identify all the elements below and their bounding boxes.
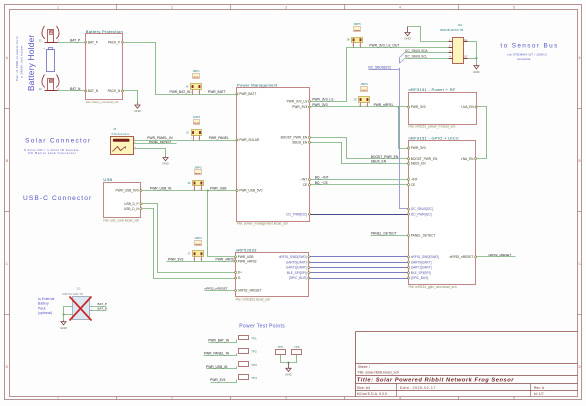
svg-text:BAT_N: BAT_N	[88, 89, 99, 93]
svg-text:PWR_3V3: PWR_3V3	[312, 103, 328, 107]
svg-text:3: 3	[285, 397, 287, 401]
svg-text:UART1[UART]: UART1[UART]	[411, 266, 432, 270]
svg-text:PWR_USB_IN: PWR_USB_IN	[206, 365, 228, 369]
svg-text:GND: GND	[134, 109, 140, 113]
svg-text:BQ_~CE: BQ_~CE	[315, 181, 329, 185]
svg-text:to External: to External	[38, 297, 54, 301]
svg-text:GND: GND	[162, 162, 168, 166]
svg-text:CE: CE	[411, 183, 415, 187]
svg-text:PANEL_DETECT: PANEL_DETECT	[411, 234, 436, 238]
svg-text:Power Test Points: Power Test Points	[239, 324, 285, 330]
svg-text:PWR_BATT: PWR_BATT	[239, 92, 256, 96]
svg-text:DC Barrel Jack Connector: DC Barrel Jack Connector	[28, 151, 76, 155]
svg-text:USB_D_P: USB_D_P	[124, 202, 139, 206]
svg-text:File: nrf52833.kicad_sch: File: nrf52833.kicad_sch	[236, 298, 271, 302]
svg-text:I2C_SBUS[I2C]: I2C_SBUS[I2C]	[411, 207, 433, 211]
svg-text:JMP3: JMP3	[194, 165, 202, 169]
svg-text:1: 1	[359, 45, 360, 47]
svg-text:1: 1	[57, 6, 59, 10]
svg-text:PWR_3V3: PWR_3V3	[210, 378, 226, 382]
svg-text:J1: J1	[39, 39, 42, 43]
svg-text:nRF52833: nRF52833	[236, 247, 258, 252]
svg-text:BAT_P: BAT_P	[70, 39, 81, 43]
svg-text:TP2: TP2	[251, 350, 257, 354]
svg-text:JMP2: JMP2	[193, 115, 201, 119]
svg-text:PWR_3V3_LS_OUT: PWR_3V3_LS_OUT	[369, 43, 399, 47]
svg-text:USB_D_N: USB_D_N	[124, 207, 139, 211]
svg-text:J7: J7	[187, 252, 190, 256]
svg-text:USB-C Connector: USB-C Connector	[23, 195, 92, 202]
svg-text:Rev: A: Rev: A	[534, 386, 545, 390]
svg-text:4: 4	[399, 6, 401, 10]
svg-text:File: nrf9151_power_rf.kicad_s: File: nrf9151_power_rf.kicad_sch	[409, 125, 456, 129]
svg-text:S2B-PH-SM4-TB: S2B-PH-SM4-TB	[62, 292, 83, 296]
svg-text:nRF52_nRESET: nRF52_nRESET	[205, 287, 228, 291]
svg-text:PWR_USB_IN: PWR_USB_IN	[150, 187, 172, 191]
svg-text:1: 1	[198, 92, 199, 94]
svg-text:TP3: TP3	[251, 363, 257, 367]
svg-text:File: nrf9151_gpio_uicc.kicad_: File: nrf9151_gpio_uicc.kicad_sch	[409, 285, 457, 289]
svg-text:nRF52_nRESET: nRF52_nRESET	[450, 255, 474, 259]
svg-text:J9: J9	[353, 97, 356, 101]
svg-text:~INT: ~INT	[411, 178, 418, 182]
svg-text:PWR_USB: PWR_USB	[210, 187, 227, 191]
svg-text:1: 1	[57, 397, 59, 401]
svg-text:BAT_P: BAT_P	[98, 302, 107, 306]
svg-text:File: usb_conn.kicad_sch: File: usb_conn.kicad_sch	[103, 219, 139, 223]
svg-text:File: battery_prot.kicad_sch: File: battery_prot.kicad_sch	[86, 100, 119, 104]
svg-text:BAT_N: BAT_N	[98, 307, 107, 311]
svg-text:UART0[UART]: UART0[UART]	[286, 260, 307, 264]
svg-text:PWR_USB: PWR_USB	[238, 255, 254, 259]
svg-text:File: power_management.kicad_s: File: power_management.kicad_sch	[237, 222, 288, 226]
svg-text:1: 1	[198, 138, 199, 140]
svg-text:PWR_USB_5V0: PWR_USB_5V0	[115, 189, 138, 193]
svg-text:PWR_BATT: PWR_BATT	[208, 90, 226, 94]
svg-text:BOOST_PWR_EN: BOOST_PWR_EN	[371, 155, 399, 159]
svg-text:nRF9151 - Power + RF: nRF9151 - Power + RF	[409, 87, 456, 92]
svg-text:KiCad E.D.A. 9.0.0: KiCad E.D.A. 9.0.0	[357, 392, 387, 396]
svg-text:to Sensor Bus: to Sensor Bus	[500, 43, 558, 50]
svg-text:Battery Protection: Battery Protection	[86, 29, 123, 34]
svg-text:BM04B-SRSS-TB: BM04B-SRSS-TB	[440, 28, 463, 32]
svg-text:SBUS_EN: SBUS_EN	[371, 160, 387, 164]
svg-text:Title: Solar Powered Ribbit Ne: Title: Solar Powered Ribbit Network Frog…	[357, 378, 514, 384]
svg-text:J11: J11	[76, 286, 81, 290]
svg-text:connector: connector	[517, 57, 531, 61]
svg-text:USB: USB	[103, 177, 112, 182]
svg-text:nRF52_nRESET: nRF52_nRESET	[488, 253, 511, 257]
svg-text:a 18650 cell holder: a 18650 cell holder	[20, 45, 24, 78]
svg-text:File: solar-ribbit.kicad_sch: File: solar-ribbit.kicad_sch	[358, 371, 400, 375]
svg-text:BOOST_PWR_EN: BOOST_PWR_EN	[281, 136, 308, 140]
svg-text:PACK_N: PACK_N	[108, 89, 121, 93]
svg-text:PANEL_DETECT: PANEL_DETECT	[371, 232, 397, 236]
svg-text:BOOST_PWR_EN: BOOST_PWR_EN	[411, 157, 438, 161]
svg-text:Id: 1/7: Id: 1/7	[534, 392, 544, 396]
svg-text:PWR_3V3: PWR_3V3	[411, 146, 426, 150]
svg-text:LNA_EN: LNA_EN	[461, 105, 474, 109]
svg-text:J6: J6	[187, 181, 190, 185]
svg-text:PWR_USB_5V0: PWR_USB_5V0	[239, 189, 262, 193]
svg-text:~INT: ~INT	[300, 178, 307, 182]
svg-text:I2C_SBUS[I2C]: I2C_SBUS[I2C]	[368, 65, 391, 69]
svg-text:Date: 2025-02-17: Date: 2025-02-17	[400, 386, 436, 390]
svg-text:2: 2	[171, 6, 173, 10]
svg-text:[SPIC_BUS]: [SPIC_BUS]	[289, 276, 307, 280]
svg-text:GND: GND	[404, 37, 410, 41]
svg-text:SBUS_EN: SBUS_EN	[411, 162, 427, 166]
svg-text:PWR_3V3_LS: PWR_3V3_LS	[287, 99, 308, 103]
svg-text:nRF9151 - GPIO + UICC: nRF9151 - GPIO + UICC	[409, 136, 460, 141]
svg-text:PACK_P: PACK_P	[108, 41, 120, 45]
svg-text:J2: J2	[39, 87, 42, 91]
svg-text:PWR_BAT_IN: PWR_BAT_IN	[208, 338, 229, 342]
svg-text:J10: J10	[458, 23, 463, 27]
svg-text:(optional): (optional)	[38, 311, 52, 315]
svg-text:JMP6: JMP6	[360, 82, 368, 86]
svg-text:nRF91_SWD[SWD]: nRF91_SWD[SWD]	[279, 255, 307, 259]
svg-text:J4: J4	[185, 84, 188, 88]
svg-text:TP5: TP5	[277, 345, 283, 349]
svg-text:I2C_PWR[I2C]: I2C_PWR[I2C]	[411, 212, 432, 216]
svg-text:1: 1	[200, 259, 201, 261]
svg-text:[SPIC_BUS]: [SPIC_BUS]	[411, 276, 429, 280]
svg-text:TP1: TP1	[251, 336, 257, 340]
svg-text:UART0[UART]: UART0[UART]	[411, 260, 432, 264]
svg-text:PWR_3V3: PWR_3V3	[292, 105, 307, 109]
svg-text:1: 1	[193, 188, 194, 190]
svg-text:PWR_nRF52: PWR_nRF52	[238, 259, 257, 263]
svg-text:nRF91_SWD[SWD]: nRF91_SWD[SWD]	[411, 255, 439, 259]
svg-text:PWR_PANEL: PWR_PANEL	[209, 136, 229, 140]
svg-text:1: 1	[352, 45, 353, 47]
svg-text:Size: A4: Size: A4	[357, 386, 370, 390]
svg-text:Power Management: Power Management	[237, 83, 278, 88]
svg-text:B: B	[579, 159, 581, 163]
svg-text:JMP5: JMP5	[353, 22, 361, 26]
svg-text:2: 2	[171, 397, 173, 401]
svg-text:GND: GND	[60, 326, 66, 330]
svg-text:1: 1	[359, 105, 360, 107]
svg-text:J3: J3	[113, 127, 116, 131]
svg-text:D-: D-	[238, 276, 241, 280]
svg-text:Sheet: /: Sheet: /	[358, 365, 370, 369]
svg-text:Pack: Pack	[38, 306, 46, 310]
svg-text:PWR_nRF91: PWR_nRF91	[374, 103, 394, 107]
svg-text:TP4: TP4	[251, 376, 257, 380]
svg-text:5: 5	[513, 6, 515, 10]
svg-text:1: 1	[191, 138, 192, 140]
svg-text:PWR_3V3_LS: PWR_3V3_LS	[312, 97, 334, 101]
svg-text:SBUS_EN: SBUS_EN	[292, 140, 308, 144]
svg-text:1: 1	[191, 92, 192, 94]
svg-text:B: B	[6, 159, 8, 163]
svg-text:GND: GND	[473, 70, 479, 74]
svg-text:UART1[UART]: UART1[UART]	[286, 266, 307, 270]
svg-text:BQ_~INT: BQ_~INT	[315, 176, 329, 180]
svg-text:D+: D+	[238, 271, 242, 275]
svg-text:BAT_N: BAT_N	[70, 87, 81, 91]
svg-text:J5: J5	[186, 130, 189, 134]
svg-text:1: 1	[366, 105, 367, 107]
svg-text:I2C_PWR[I2C]: I2C_PWR[I2C]	[286, 212, 307, 216]
svg-text:LNA_EN: LNA_EN	[461, 157, 474, 161]
svg-text:nRF52_nRESET: nRF52_nRESET	[238, 289, 262, 293]
svg-text:Battery Holder: Battery Holder	[27, 34, 36, 91]
svg-text:TP6: TP6	[294, 345, 300, 349]
svg-text:PANEL_DETECT: PANEL_DETECT	[149, 140, 172, 144]
svg-text:Battery: Battery	[38, 302, 49, 306]
svg-text:CE: CE	[303, 183, 307, 187]
svg-text:BLE_SPI[SPI]: BLE_SPI[SPI]	[287, 271, 307, 275]
svg-text:PWR_SOLAR: PWR_SOLAR	[239, 138, 260, 142]
svg-text:Pair of SMD contacts form: Pair of SMD contacts form	[15, 36, 19, 81]
svg-text:3: 3	[285, 6, 287, 10]
svg-text:5.5mm/1.0mm: 5.5mm/1.0mm	[112, 132, 131, 136]
svg-text:GND: GND	[285, 373, 291, 377]
svg-text:I2C_SBUS.SDA: I2C_SBUS.SDA	[405, 49, 429, 53]
svg-text:JMP4: JMP4	[194, 236, 202, 240]
svg-text:4: 4	[399, 397, 401, 401]
svg-text:PWR_3V3: PWR_3V3	[168, 257, 184, 261]
svg-text:PWR_nRF52: PWR_nRF52	[216, 257, 236, 261]
svg-text:Solar Connector: Solar Connector	[25, 137, 91, 144]
svg-text:I2C_SBUS.SCL: I2C_SBUS.SCL	[405, 54, 428, 58]
svg-text:PWR_BAT_IN: PWR_BAT_IN	[170, 90, 191, 94]
svg-text:JMP1: JMP1	[192, 69, 200, 73]
svg-text:J8: J8	[346, 38, 349, 42]
svg-text:BAT_P: BAT_P	[88, 41, 98, 45]
svg-text:1: 1	[200, 188, 201, 190]
svg-text:PWR_PANEL_IN: PWR_PANEL_IN	[204, 352, 230, 356]
svg-text:5: 5	[513, 397, 515, 401]
svg-text:BLE_SPI[SPI]: BLE_SPI[SPI]	[411, 271, 431, 275]
svg-text:1: 1	[193, 259, 194, 261]
svg-text:PWR_3V3: PWR_3V3	[411, 105, 426, 109]
